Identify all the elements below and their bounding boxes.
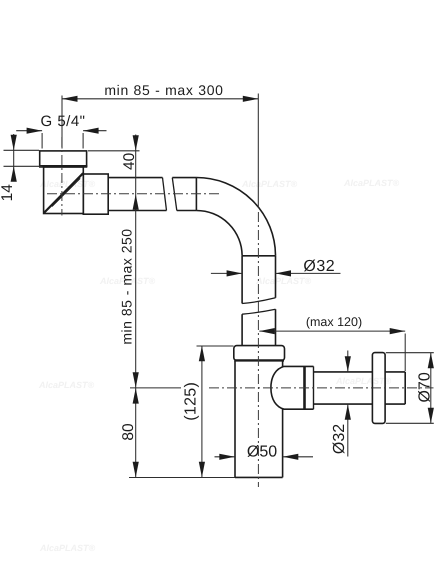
svg-text:min 85 - max 300: min 85 - max 300 <box>104 82 223 98</box>
arrow Ø32 lower bottom <box>345 404 351 420</box>
watermark row3 right <box>335 376 392 386</box>
elbow body <box>44 167 84 214</box>
dim Ø32 lower upper segment <box>347 351 349 372</box>
dim G5/4 left line <box>16 130 42 132</box>
arrow Ø50 left <box>219 454 235 460</box>
arrow 80 bottom <box>133 462 139 478</box>
svg-text:(max 120): (max 120) <box>306 315 362 329</box>
vertical pipe segmentA break edge <box>242 298 275 304</box>
outlet pipe end top <box>385 371 405 373</box>
outlet centerline left reference <box>130 387 181 389</box>
bottle body right edge upper <box>282 361 284 367</box>
arrow min250 bottom <box>133 372 139 388</box>
elbow socket <box>83 174 108 214</box>
horizontal pipe segment1 top <box>108 177 162 179</box>
dim min85-max300 left extension <box>61 96 63 149</box>
bend outer arc <box>196 178 275 256</box>
dim Ø32 lower lower segment <box>347 404 349 456</box>
arrow max120 left <box>259 328 275 334</box>
outlet pipe bottom <box>314 403 373 405</box>
svg-text:G 5/4": G 5/4" <box>40 113 85 130</box>
bend joint line <box>195 178 197 211</box>
watermark row3 left <box>38 380 95 390</box>
svg-text:Ø70: Ø70 <box>417 372 434 402</box>
bottle body right edge lower <box>282 409 284 478</box>
watermark row2 left <box>99 276 156 286</box>
dim 14 bottom extension <box>4 165 43 167</box>
bend lower joint line <box>242 255 275 257</box>
arrow Ø70 bottom <box>428 408 434 424</box>
arrow 40 top <box>133 135 139 151</box>
arrow min300 left <box>62 96 78 102</box>
arrow Ø70 top <box>428 353 434 369</box>
svg-text:AlcaPLAST®: AlcaPLAST® <box>39 543 96 553</box>
arrow 14 bottom <box>11 166 17 182</box>
arrow Ø32 upper left <box>227 270 243 276</box>
bottle body left edge <box>234 361 236 478</box>
svg-text:AlcaPLAST®: AlcaPLAST® <box>255 276 312 286</box>
arrow 14 top <box>11 135 17 151</box>
arrow Ø32 upper right <box>276 270 292 276</box>
dim 14 line <box>13 134 15 181</box>
outlet nut thick edge <box>303 366 306 409</box>
vertical pipe segmentA left <box>241 256 243 304</box>
horizontal pipe segment2 break edge <box>172 178 177 211</box>
dim Ø32 upper left leader <box>211 272 242 274</box>
dim Ø32 upper right leader <box>276 272 341 274</box>
arrow 40 bottom shared <box>133 194 139 210</box>
watermark bottom left <box>39 543 96 553</box>
dim Ø50 right leader <box>283 456 313 458</box>
svg-text:Ø50: Ø50 <box>247 444 277 461</box>
arrow G5/4 left <box>27 128 42 134</box>
svg-text:80: 80 <box>120 423 137 441</box>
bottle top nut <box>234 346 285 361</box>
shared vertical dimension line 40/min250/80 <box>135 135 137 478</box>
centerline outlet horizontal <box>209 387 434 389</box>
dim G5/4 right line <box>83 130 106 132</box>
dim Ø70 line <box>430 353 432 424</box>
watermark row1 right <box>343 178 400 188</box>
outlet pipe end bottom <box>385 403 405 405</box>
dim min85-max300 line <box>62 98 258 100</box>
arrow Ø50 right <box>283 454 299 460</box>
svg-text:40: 40 <box>121 152 138 170</box>
arrow Ø32 lower top <box>345 356 351 372</box>
vertical pipe segmentA right <box>275 256 277 298</box>
arrow max120 right <box>390 328 406 334</box>
bottle body bottom edge <box>235 476 283 478</box>
dim 40 top extension <box>88 150 140 152</box>
outlet pipe end edge <box>404 372 406 404</box>
outlet nut thin edge <box>313 366 315 409</box>
svg-text:min 85 - max 250: min 85 - max 250 <box>118 228 134 344</box>
horizontal pipe segment2 top <box>172 177 196 179</box>
vertical pipe segmentB right <box>275 309 277 345</box>
vertical pipe segmentB break edge <box>242 309 275 314</box>
svg-text:Ø32: Ø32 <box>303 258 335 275</box>
svg-text:AlcaPLAST®: AlcaPLAST® <box>335 376 392 386</box>
elbow miter diagonal thin <box>52 178 80 206</box>
watermark row2 mid <box>255 276 312 286</box>
dim Ø70 bottom extension <box>386 422 434 424</box>
dim G5/4 left extension <box>41 133 43 149</box>
svg-text:AlcaPLAST®: AlcaPLAST® <box>343 178 400 188</box>
dim Ø70 top extension <box>386 352 434 354</box>
dim min85-max300 right extension <box>257 94 259 208</box>
arrow G5/4 right <box>83 128 99 134</box>
watermark row1 left <box>39 179 96 189</box>
dim G5/4 right extension <box>82 133 84 149</box>
dim 125 line <box>201 346 203 478</box>
bottom reference line <box>129 477 235 479</box>
centerline wall connection vertical <box>61 137 63 216</box>
centerline horizontal pipe <box>47 193 220 195</box>
svg-text:AlcaPLAST®: AlcaPLAST® <box>241 179 298 189</box>
wall rosette flange <box>372 353 385 424</box>
centerline vertical pipe and bottle <box>257 212 259 487</box>
arrow 80 top <box>133 388 139 404</box>
dim Ø50 left leader <box>215 456 235 458</box>
horizontal pipe segment2 bottom <box>177 210 197 212</box>
svg-text:AlcaPLAST®: AlcaPLAST® <box>39 179 96 189</box>
wall nut thick bottom edge <box>39 165 87 168</box>
dim max120 line <box>259 330 405 332</box>
dim 14 top extension <box>4 149 40 151</box>
vertical pipe segmentB left <box>241 314 243 345</box>
wall nut G5/4 <box>40 151 87 166</box>
svg-text:AlcaPLAST®: AlcaPLAST® <box>38 380 95 390</box>
horizontal pipe segment1 break edge <box>163 178 167 211</box>
svg-text:14: 14 <box>0 184 16 202</box>
dim max120 right extension <box>404 334 406 372</box>
watermark row1 mid <box>241 179 298 189</box>
arrow min300 right <box>243 96 258 102</box>
outlet pipe top <box>314 371 373 373</box>
bottle top nut thick bottom edge <box>234 359 284 361</box>
arrow 125 bottom <box>199 462 205 478</box>
horizontal pipe segment1 bottom <box>108 210 166 212</box>
bend inner arc <box>196 211 242 256</box>
arrow 125 top <box>199 346 205 362</box>
elbow miter diagonal thick <box>44 173 83 212</box>
svg-text:(125): (125) <box>183 382 200 421</box>
svg-text:Ø32: Ø32 <box>331 424 348 454</box>
outlet bell outline <box>271 366 314 409</box>
dim 125 top extension <box>197 345 234 347</box>
